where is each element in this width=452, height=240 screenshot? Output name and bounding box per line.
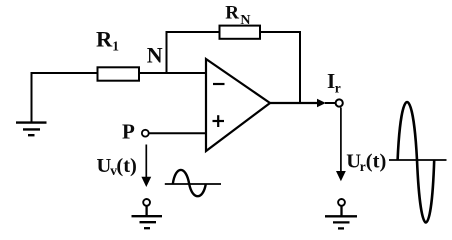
ground (bottom left, under P) [132,206,163,228]
svg-text:N: N [240,13,250,28]
op-amp U1 triangle [206,59,270,151]
arrow Uv (line) [145,145,147,179]
arrow Ur (head) [336,171,346,181]
resistor RN [220,26,261,39]
svg-text:R: R [225,3,239,24]
arrowhead on output wire [317,99,326,107]
wire feedback top horizontal right segment [260,31,301,33]
wire from P terminal to op-amp non-inverting input [149,132,207,134]
ground (left, input side) [16,123,47,136]
wire op-amp output [269,102,318,104]
wire feedback vertical up from node N [166,31,168,73]
small sine waveform [173,170,206,196]
wire left vertical (input to ground) [31,73,33,122]
wire horizontal from left corner to R1 [31,72,98,74]
big sine axis [389,159,447,161]
ground (bottom right, under Ur) [325,206,357,228]
svg-text:(t): (t) [116,155,136,177]
wire feedback vertical down to output [299,31,301,104]
small sine axis [165,183,221,185]
op-amp plus sign (non-inverting input) [213,115,225,127]
terminal circle Ir [336,99,343,106]
svg-text:N: N [147,43,163,68]
svg-text:r: r [360,159,366,174]
svg-text:r: r [335,81,341,96]
op-amp minus sign (inverting input) [213,83,225,85]
arrow Ur (line) [340,108,342,173]
svg-text:P: P [122,120,135,144]
terminal P circle [142,130,149,137]
wire feedback top horizontal left segment [166,31,220,33]
big sine waveform [398,102,435,222]
terminal circle on bottom-left ground [143,199,150,206]
terminal circle on bottom-right ground [338,199,345,206]
svg-text:(t): (t) [366,151,386,173]
svg-text:R1: R1 [96,27,119,54]
wire from R1 to op-amp inverting input [139,72,207,74]
wire from arrowhead to Ir terminal [325,102,335,104]
resistor R1 [98,67,140,80]
arrow Uv (head) [141,177,151,187]
